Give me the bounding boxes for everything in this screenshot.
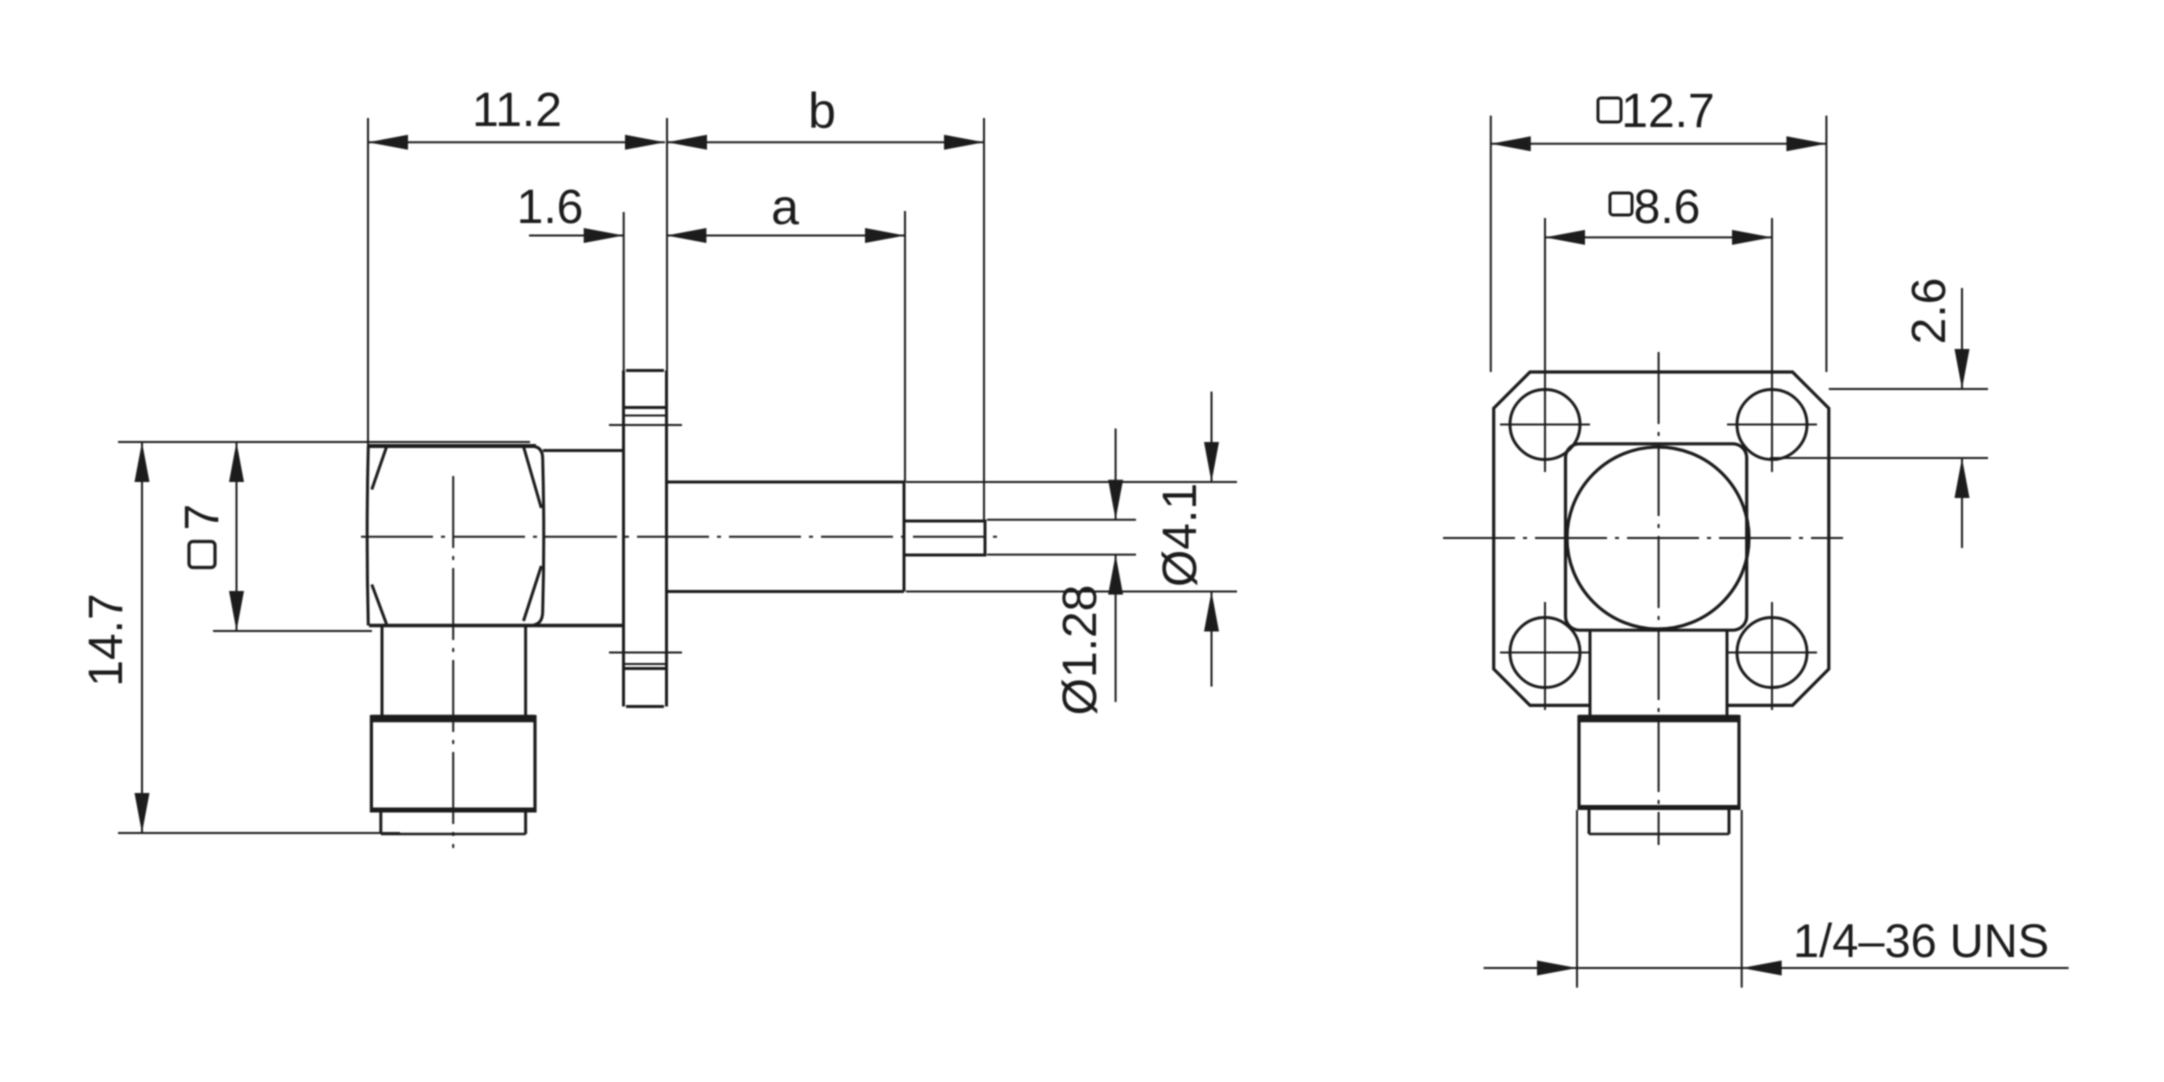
dimension 11.2 <box>368 135 665 150</box>
dimension b <box>667 135 984 150</box>
flange side view plate <box>624 371 667 707</box>
mounting hole top-right <box>1727 390 1817 460</box>
neck below hex (side view) <box>382 626 526 715</box>
bottom cap (side view) <box>381 813 526 835</box>
vertical centerline (side view) <box>452 476 454 848</box>
dimension square 8.6 <box>1545 218 1772 472</box>
mounting hole bottom-right <box>1727 602 1817 710</box>
vertical centerline (front view) <box>1658 352 1660 845</box>
dimension dia 4.1 <box>906 392 1237 687</box>
svg-text:Ø1.28: Ø1.28 <box>1054 585 1107 716</box>
neck (front view) <box>1590 631 1727 716</box>
mounting hole top-left <box>1500 390 1590 460</box>
center pin (side view) <box>904 521 985 555</box>
coupling circle (front view) <box>1567 447 1749 629</box>
svg-text:12.7: 12.7 <box>1621 85 1714 138</box>
hex nut body side view <box>367 446 623 626</box>
svg-text:b: b <box>808 83 836 139</box>
svg-text:2.6: 2.6 <box>1903 278 1956 345</box>
svg-text:14.7: 14.7 <box>80 593 133 686</box>
dimension 1/4-36 UNS thread <box>1484 810 2069 988</box>
horizontal centerline (front view) <box>1443 537 1843 539</box>
svg-text:11.2: 11.2 <box>472 84 562 137</box>
horizontal centerline (side view) <box>361 536 1002 538</box>
svg-text:8.6: 8.6 <box>1634 181 1701 234</box>
dimension 14.7 <box>118 442 530 833</box>
svg-text:a: a <box>771 179 799 235</box>
dimension 1.6 <box>529 228 624 243</box>
dielectric stem (side view) <box>667 482 905 592</box>
extension lines top (side view) <box>368 118 984 521</box>
svg-text:7: 7 <box>176 504 229 531</box>
inner square body (front view) <box>1566 444 1747 630</box>
svg-text:1/4–36 UNS: 1/4–36 UNS <box>1793 914 2049 967</box>
rear cylinder to flange <box>543 449 624 452</box>
svg-text:Ø4.1: Ø4.1 <box>1154 483 1207 587</box>
dimension a <box>666 228 905 243</box>
dimension 2.6 (hole diameter) <box>1770 288 1988 548</box>
dimension square 7 <box>213 442 372 631</box>
coupling nut (front view) <box>1579 715 1739 810</box>
dimension dia 1.28 <box>987 429 1136 703</box>
bottom cap (front view) <box>1589 810 1729 834</box>
svg-text:1.6: 1.6 <box>517 181 584 234</box>
flange mounting-hole center ticks (side view) <box>609 425 682 653</box>
flange front outline with chamfered corners <box>1494 372 1829 705</box>
dimension square 12.7 <box>1491 116 1827 372</box>
coupling nut barrel (side view) <box>371 715 535 813</box>
mounting hole bottom-left <box>1500 602 1590 710</box>
